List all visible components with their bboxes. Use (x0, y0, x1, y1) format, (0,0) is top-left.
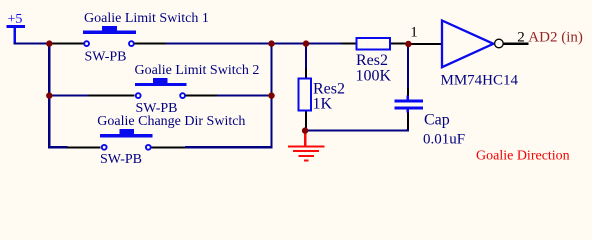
resistor R1 top pin (305, 69, 307, 79)
wire S1 to node C (top main wire) (166, 43, 342, 45)
svg-text:1K: 1K (313, 95, 333, 112)
capacitor C1 bottom pin (407, 112, 409, 129)
wire S2 to node F (217, 95, 273, 97)
wire node D down to cap (407, 44, 409, 88)
switch S2 left pin (89, 95, 135, 97)
U1 input pin wire (409, 43, 442, 45)
junction node B (268, 40, 274, 46)
svg-text:Goalie Change Dir Switch: Goalie Change Dir Switch (97, 114, 245, 129)
capacitor C1 top pin (407, 88, 409, 96)
ground symbol (288, 133, 324, 161)
U1 output pin wire (503, 43, 528, 45)
junction node E (46, 92, 52, 98)
switch S1 right pin (134, 43, 168, 45)
switch S1 button actuator (83, 26, 136, 34)
junction node C (303, 40, 309, 46)
svg-text:SW-PB: SW-PB (100, 152, 142, 167)
wire right rail vertical (node B down to row3 corner) (270, 44, 272, 149)
wire cap bottom corner vertical (407, 129, 409, 132)
junction node D (405, 41, 411, 47)
resistor R1 body (299, 79, 312, 111)
svg-text:2: 2 (517, 30, 525, 46)
switch S2 right pin (186, 95, 219, 97)
switch S2 left terminal circle (136, 93, 141, 98)
svg-text:Goalie Limit Switch 1: Goalie Limit Switch 1 (84, 11, 209, 26)
inverter U1 triangle (442, 21, 493, 68)
junction node A (46, 40, 52, 46)
svg-text:Res2: Res2 (356, 52, 388, 69)
switch S3 button actuator (100, 129, 153, 137)
resistor R2 right pin (391, 43, 409, 45)
capacitor C1 top plate (395, 100, 424, 103)
svg-text:100K: 100K (356, 67, 392, 84)
wire left rail vertical (node A down to row3 corner) (48, 44, 50, 149)
svg-text:AD2 (in): AD2 (in) (528, 30, 583, 46)
svg-text:1: 1 (410, 25, 418, 41)
switch S2 right terminal circle (180, 93, 185, 98)
U1 output bubble (495, 39, 504, 48)
svg-text:Goalie Direction: Goalie Direction (476, 149, 570, 164)
capacitor C1 top stem (407, 96, 409, 100)
switch S2 button actuator (135, 78, 187, 86)
switch S1 left pin (49, 43, 84, 45)
capacitor C1 bottom stem (407, 109, 409, 112)
power +5 symbol (7, 12, 26, 43)
switch S3 left terminal circle (102, 145, 107, 150)
junction node G (302, 127, 308, 133)
wire node C down to R1 (305, 44, 307, 69)
switch S1 left terminal circle (84, 41, 89, 46)
resistor R2 body (357, 38, 391, 50)
svg-text:+5: +5 (8, 12, 23, 27)
switch S1 right terminal circle (129, 41, 134, 46)
svg-text:Cap: Cap (424, 112, 450, 129)
svg-text:MM74HC14: MM74HC14 (441, 73, 519, 89)
switch S3 left pin (67, 146, 101, 148)
wire +5 to node A (14, 43, 50, 45)
svg-text:SW-PB: SW-PB (85, 50, 127, 65)
svg-text:Goalie Limit Switch 2: Goalie Limit Switch 2 (135, 63, 260, 78)
junction node F (268, 92, 274, 98)
wire S3 to right rail (185, 146, 273, 148)
resistor R1 bottom pin (305, 112, 307, 129)
switch S3 right terminal circle (146, 145, 151, 150)
capacitor C1 bottom plate (395, 106, 424, 109)
switch S3 right pin (151, 146, 186, 148)
wire node E to S2 (49, 95, 89, 97)
resistor R2 left pin (342, 43, 357, 45)
wire node G to cap bottom corner (305, 130, 409, 132)
wire row3 left (rail corner to S3) (48, 146, 68, 148)
svg-text:0.01uF: 0.01uF (423, 132, 465, 148)
